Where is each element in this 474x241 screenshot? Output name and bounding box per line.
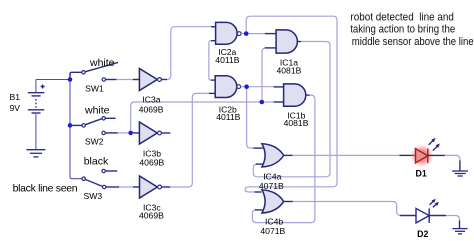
node bus-SW1 [68, 77, 73, 82]
svg-text:4071B: 4071B [260, 226, 285, 236]
ground at D1 [452, 171, 468, 176]
svg-text:4069B: 4069B [139, 105, 164, 115]
svg-text:SW1: SW1 [85, 84, 104, 94]
wire SW1 to IC3a [106, 79, 117, 81]
svg-text:white: white [84, 105, 110, 117]
node branch to IC1a [260, 100, 265, 105]
svg-text:SW3: SW3 [84, 191, 103, 201]
wire IC4a out to LED D1 [284, 154, 293, 156]
node IC2a output [244, 31, 249, 36]
wire IC1a out to IC4a input [297, 41, 301, 43]
and IC1a [276, 30, 297, 53]
svg-text:D1: D1 [416, 169, 427, 179]
svg-text:white: white [89, 57, 115, 69]
switch SW2 [71, 117, 116, 135]
svg-text:robot detected line and: robot detected line and [350, 11, 454, 23]
LED D1 (lit) [410, 138, 440, 168]
wire tie IC2a.in2 to IC2b.in1 [211, 40, 216, 42]
svg-text:black: black [84, 156, 109, 168]
nand IC2a [216, 22, 242, 44]
wire IC2b out to IC1b input [241, 86, 245, 88]
wire IC1b out to IC4b input [306, 94, 310, 96]
inverter IC3c [140, 176, 162, 198]
wire D1 cathode to ground [428, 154, 445, 156]
wire IC2a out to IC1a input [241, 33, 244, 35]
wire branch riser to IC1a input [262, 48, 266, 100]
wire IC3c out to IC2b input [162, 186, 171, 188]
inverter IC3b [139, 122, 161, 144]
svg-text:black line seen: black line seen [13, 182, 78, 194]
wire IC4b out to LED D2 [284, 201, 293, 203]
wire SW3 to IC3c [106, 186, 119, 188]
wire IC3a out to IC2a input [161, 79, 167, 81]
wire SW2 branch to IC1b input [131, 102, 262, 131]
node bus-SW2 [68, 123, 73, 128]
svg-text:IC3a: IC3a [142, 95, 160, 105]
svg-text:B1: B1 [10, 92, 21, 102]
svg-text:middle sensor above the line: middle sensor above the line [352, 36, 474, 48]
ground below battery [26, 150, 45, 157]
wire IC2b out branch to IC4a input [247, 89, 254, 148]
svg-text:D2: D2 [417, 229, 428, 239]
inverter IC3a [139, 69, 161, 91]
wire IC2a out branch to IC4b input [245, 16, 337, 192]
or IC4a [262, 144, 284, 167]
nand IC2b [215, 76, 240, 98]
node IC2b output [244, 84, 249, 89]
or IC4b [262, 190, 284, 213]
wire IC3b output stub [161, 132, 170, 134]
svg-text:9V: 9V [10, 103, 21, 113]
node SW2 branch [128, 131, 133, 136]
svg-text:SW2: SW2 [85, 136, 104, 146]
switch SW1 [70, 62, 118, 81]
svg-text:4011B: 4011B [216, 112, 240, 122]
battery B1 [28, 80, 45, 150]
wire supply bus [70, 80, 82, 179]
ground at D2 [452, 229, 467, 234]
annotation text [350, 11, 473, 48]
svg-text:4069B: 4069B [139, 211, 164, 221]
svg-text:4081B: 4081B [277, 66, 302, 76]
svg-text:taking action to bring the: taking action to bring the [350, 24, 455, 36]
LED D2 [416, 199, 439, 223]
svg-text:4011B: 4011B [215, 55, 239, 65]
svg-text:4069B: 4069B [139, 157, 164, 167]
wire D2 cathode to ground [429, 215, 446, 217]
svg-text:4081B: 4081B [284, 118, 309, 128]
switch SW3 [82, 169, 117, 188]
wire SW2 to IC3b [105, 132, 118, 134]
and IC1b [284, 84, 306, 106]
wire battery to bus [36, 79, 70, 81]
